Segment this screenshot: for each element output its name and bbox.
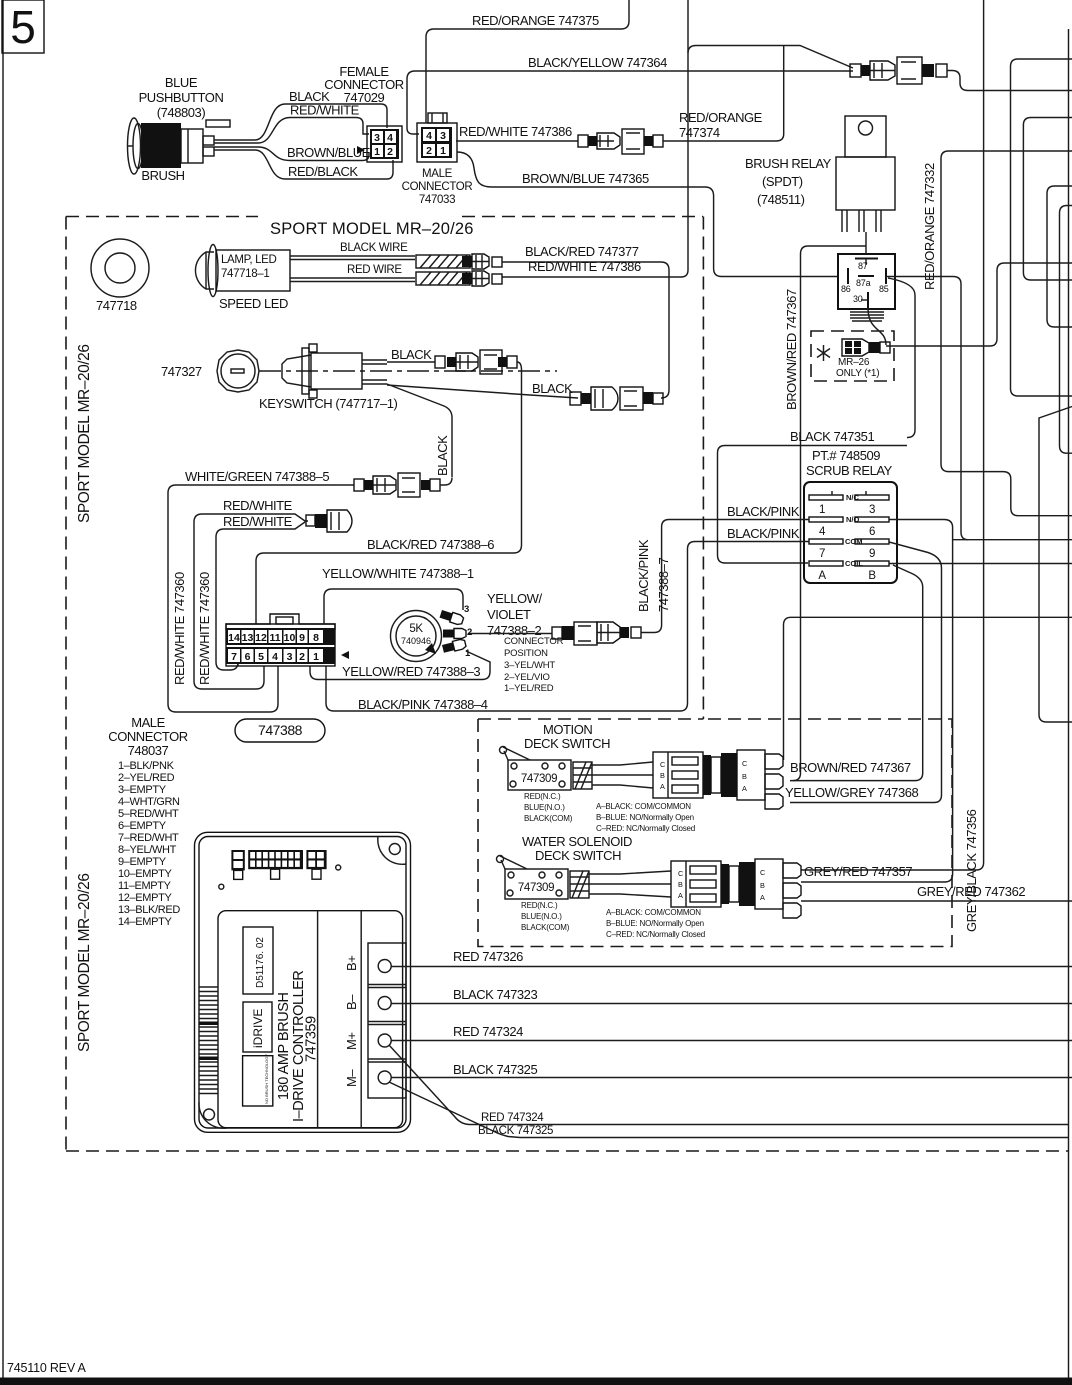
svg-text:9–EMPTY: 9–EMPTY xyxy=(118,856,167,868)
svg-text:BLACK/RED 747377: BLACK/RED 747377 xyxy=(525,244,639,259)
svg-text:180 AMP BRUSH: 180 AMP BRUSH xyxy=(276,992,292,1100)
wire bundle pushbutton to female connector xyxy=(214,104,393,179)
svg-text:BROWN/RED 747367: BROWN/RED 747367 xyxy=(790,760,911,775)
svg-text:RED/WHITE 747386: RED/WHITE 747386 xyxy=(528,259,641,274)
svg-text:2: 2 xyxy=(467,627,472,638)
svg-text:RED 747324: RED 747324 xyxy=(481,1112,544,1124)
wire from pin30 S to MR26 connector and right xyxy=(868,308,886,345)
svg-text:RED(N.C.): RED(N.C.) xyxy=(524,792,561,801)
svg-text:A: A xyxy=(818,570,826,582)
svg-text:C: C xyxy=(678,869,683,878)
svg-text:VIOLET: VIOLET xyxy=(487,607,531,622)
svg-text:RED/ORANGE: RED/ORANGE xyxy=(679,110,763,125)
sport model dashed box top edge with title gap xyxy=(66,216,703,218)
terminal block xyxy=(368,943,406,1098)
svg-text:B: B xyxy=(678,880,683,889)
svg-text:9: 9 xyxy=(299,632,305,644)
label boxes xyxy=(243,927,273,994)
pin6 wire: right, down, junction right to edge xyxy=(889,520,953,883)
svg-text:745110 REV A: 745110 REV A xyxy=(7,1361,87,1375)
arrow marker xyxy=(357,146,365,154)
motion microswitch xyxy=(500,747,572,791)
svg-text:2: 2 xyxy=(426,145,432,157)
spade connector pair on BLACK/YELLOW at (853-947,70) xyxy=(850,57,947,84)
svg-text:747388–7: 747388–7 xyxy=(656,558,671,612)
svg-text:4–WHT/GRN: 4–WHT/GRN xyxy=(118,796,180,808)
svg-text:BLACK/PINK 747388–4: BLACK/PINK 747388–4 xyxy=(358,697,488,712)
svg-text:RED/ORANGE 747375: RED/ORANGE 747375 xyxy=(472,13,599,28)
svg-text:12: 12 xyxy=(255,632,267,644)
svg-text:5: 5 xyxy=(10,1,36,53)
svg-text:3: 3 xyxy=(464,604,469,615)
svg-text:LAMP, LED: LAMP, LED xyxy=(221,254,276,266)
BROWN/RED 747367 from pin87 region down xyxy=(793,246,866,781)
svg-text:747374: 747374 xyxy=(679,125,720,140)
svg-text:BLACK/RED 747388–6: BLACK/RED 747388–6 xyxy=(367,537,494,552)
svg-text:747309: 747309 xyxy=(518,882,554,894)
svg-text:BLACK/YELLOW 747364: BLACK/YELLOW 747364 xyxy=(528,55,667,70)
YELLOW/VIOLET long wire at y617 from motion deck to edge xyxy=(784,617,1072,760)
pot terminals xyxy=(439,604,472,659)
svg-text:2: 2 xyxy=(299,651,305,663)
right pins xyxy=(855,491,889,582)
splice hatched blocks xyxy=(416,255,470,285)
svg-text:11–EMPTY: 11–EMPTY xyxy=(118,880,172,892)
svg-text:1: 1 xyxy=(374,146,380,158)
svg-text:C–RED: NC/Normally Close: C–RED: NC/Normally Closed xyxy=(596,824,695,833)
svg-text:747029: 747029 xyxy=(344,90,385,105)
svg-text:RED(N.C.): RED(N.C.) xyxy=(521,901,558,910)
svg-text:5K: 5K xyxy=(409,623,423,635)
wire top pin to connector xyxy=(387,361,435,363)
svg-text:86: 86 xyxy=(841,284,851,294)
svg-text:2–YEL/RED: 2–YEL/RED xyxy=(118,772,175,784)
bottom dashed of whole region xyxy=(66,1150,1068,1152)
svg-text:(748511): (748511) xyxy=(757,192,805,207)
notes motion xyxy=(596,802,695,833)
svg-text:A: A xyxy=(660,782,665,791)
svg-text:C: C xyxy=(660,760,665,769)
wire on to vertical down xyxy=(256,362,522,624)
svg-text:3: 3 xyxy=(869,504,875,516)
pin85/BLACK 747351 S-curve down xyxy=(888,278,915,438)
svg-text:DECK SWITCH: DECK SWITCH xyxy=(535,848,621,863)
svg-text:B–: B– xyxy=(344,994,359,1010)
svg-text:7: 7 xyxy=(231,651,237,663)
svg-text:A–BLACK: COM/COMMON: A–BLACK: COM/COMMON xyxy=(606,908,701,917)
svg-text:BLACK/PINK: BLACK/PINK xyxy=(636,539,651,612)
svg-text:iDRIVE: iDRIVE xyxy=(251,1009,265,1048)
svg-text:KEYSWITCH (747717–1): KEYSWITCH (747717–1) xyxy=(259,396,398,411)
svg-text:5: 5 xyxy=(258,651,264,663)
corner y59 xyxy=(1011,59,1072,396)
svg-text:RED/WHITE 747360: RED/WHITE 747360 xyxy=(172,572,187,685)
svg-text:A: A xyxy=(760,893,765,902)
svg-text:3–YEL/WHT: 3–YEL/WHT xyxy=(504,660,555,671)
svg-text:747718–1: 747718–1 xyxy=(221,268,269,280)
svg-text:SPORT MODEL MR–20/26: SPORT MODEL MR–20/26 xyxy=(270,220,474,238)
svg-text:BROWN/BLUE 747365: BROWN/BLUE 747365 xyxy=(522,171,649,186)
corner y117.5 xyxy=(1023,118,1072,281)
svg-text:MALE: MALE xyxy=(131,715,165,730)
svg-text:85: 85 xyxy=(879,284,889,294)
svg-text:C: C xyxy=(760,868,765,877)
inner box xyxy=(218,911,403,1128)
keyswitch bottom pin wires xyxy=(387,384,452,477)
svg-text:ONLY (*1): ONLY (*1) xyxy=(836,368,879,379)
svg-text:NO BRUSH TECHNOLOGY: NO BRUSH TECHNOLOGY xyxy=(264,1054,269,1104)
svg-text:BLUE(N.O.): BLUE(N.O.) xyxy=(521,912,562,921)
svg-text:BLACK: BLACK xyxy=(435,435,450,476)
page border right xyxy=(1068,29,1070,1378)
svg-text:BLACK WIRE: BLACK WIRE xyxy=(340,242,408,254)
svg-text:BLACK(COM): BLACK(COM) xyxy=(524,814,573,823)
svg-text:1: 1 xyxy=(819,504,825,516)
svg-text:CONNECTOR: CONNECTOR xyxy=(402,181,473,193)
svg-text:87a: 87a xyxy=(856,278,871,288)
svg-text:748037: 748037 xyxy=(128,743,169,758)
svg-text:POSITION: POSITION xyxy=(504,648,548,659)
svg-text:B: B xyxy=(742,772,747,781)
svg-text:5–RED/WHT: 5–RED/WHT xyxy=(118,808,179,820)
svg-text:B: B xyxy=(760,881,765,890)
svg-text:A: A xyxy=(742,784,747,793)
svg-text:4: 4 xyxy=(426,130,432,142)
svg-text:SPORT MODEL MR–20/26: SPORT MODEL MR–20/26 xyxy=(76,873,93,1052)
svg-text:RED WIRE: RED WIRE xyxy=(347,264,402,276)
screw tabs xyxy=(378,837,406,865)
svg-text:1: 1 xyxy=(440,145,446,157)
svg-text:PUSHBUTTON: PUSHBUTTON xyxy=(139,90,224,105)
corner y186 xyxy=(1047,186,1072,327)
svg-text:740946: 740946 xyxy=(401,636,431,646)
connector on WHITE/GREEN (354-432,485) xyxy=(354,473,440,497)
svg-text:YELLOW/: YELLOW/ xyxy=(487,591,542,606)
svg-text:747359: 747359 xyxy=(304,1016,320,1062)
hatch strip left xyxy=(199,987,218,1094)
pushbutton BRUSH xyxy=(128,118,231,174)
svg-text:N/C: N/C xyxy=(846,493,860,502)
svg-text:BLACK 747323: BLACK 747323 xyxy=(453,987,537,1002)
wire from top at x688 down to RED/WHITE 747386 LED lead (vert) xyxy=(502,0,688,277)
svg-text:1–YEL/RED: 1–YEL/RED xyxy=(504,683,554,694)
svg-text:RED 747324: RED 747324 xyxy=(453,1024,523,1039)
svg-text:BLUE(N.O.): BLUE(N.O.) xyxy=(524,803,565,812)
brush relay schematic 86/87a/85/30 xyxy=(838,254,895,309)
svg-text:8: 8 xyxy=(313,632,319,644)
svg-text:SCRUB RELAY: SCRUB RELAY xyxy=(806,463,893,478)
svg-text:BLACK/PINK: BLACK/PINK xyxy=(727,504,800,519)
connector assembly (keyswitch top) xyxy=(435,350,517,374)
svg-text:1: 1 xyxy=(313,651,319,663)
RED/ORANGE 747332 wire: y151 corner down x941 xyxy=(941,151,1072,516)
svg-text:COM: COM xyxy=(845,537,863,546)
svg-text:2: 2 xyxy=(387,146,393,158)
svg-text:BROWN/RED 747367: BROWN/RED 747367 xyxy=(784,289,799,410)
svg-text:BRUSH RELAY: BRUSH RELAY xyxy=(745,156,832,171)
svg-text:B: B xyxy=(660,771,665,780)
svg-text:SPORT MODEL MR–20/26: SPORT MODEL MR–20/26 xyxy=(76,344,93,523)
long vertical x983.6 GREY/BLACK 747356 xyxy=(801,0,984,870)
svg-text:M+: M+ xyxy=(344,1032,359,1050)
svg-text:BLACK 747325: BLACK 747325 xyxy=(453,1062,537,1077)
svg-text:747388: 747388 xyxy=(258,722,303,738)
svg-text:CONNECTOR: CONNECTOR xyxy=(108,729,188,744)
svg-text:MALE: MALE xyxy=(422,168,453,180)
svg-text:(748803): (748803) xyxy=(157,105,206,120)
crimp terminals after splice xyxy=(462,254,502,286)
svg-text:13–BLK/RED: 13–BLK/RED xyxy=(118,904,180,916)
svg-text:A: A xyxy=(678,891,683,900)
svg-text:10–EMPTY: 10–EMPTY xyxy=(118,868,172,880)
svg-text:30: 30 xyxy=(853,294,863,304)
svg-text:14–EMPTY: 14–EMPTY xyxy=(118,916,172,928)
svg-text:GREY/RED 747362: GREY/RED 747362 xyxy=(917,884,1025,899)
pin85 wire right and down xyxy=(886,277,968,540)
svg-text:8–YEL/WHT: 8–YEL/WHT xyxy=(118,844,177,856)
svg-text:11: 11 xyxy=(269,632,280,644)
stripes under relay xyxy=(850,312,884,321)
connector glyph xyxy=(306,510,352,532)
svg-text:747033: 747033 xyxy=(419,194,455,206)
brush relay pictorial xyxy=(836,116,895,232)
svg-text:CONNECTOR: CONNECTOR xyxy=(504,636,564,647)
leg to pin 87 xyxy=(865,232,867,254)
svg-text:747327: 747327 xyxy=(161,364,202,379)
svg-text:13: 13 xyxy=(242,632,254,644)
svg-text:A–BLACK: COM/COMMON: A–BLACK: COM/COMMON xyxy=(596,802,691,811)
svg-text:PT.# 748509: PT.# 748509 xyxy=(812,448,880,463)
svg-text:RED 747326: RED 747326 xyxy=(453,949,523,964)
svg-text:BLACK(COM): BLACK(COM) xyxy=(521,923,570,932)
svg-text:RED/ORANGE 747332: RED/ORANGE 747332 xyxy=(922,163,937,290)
svg-text:747718: 747718 xyxy=(96,298,137,313)
svg-text:BLACK: BLACK xyxy=(532,381,573,396)
pin B: horizontal to edge + diagonal down xyxy=(889,563,1072,565)
svg-text:YELLOW/WHITE 747388–1: YELLOW/WHITE 747388–1 xyxy=(322,566,474,581)
female connector 747029 xyxy=(367,126,402,162)
svg-text:4: 4 xyxy=(272,651,278,663)
left dashed edge full height xyxy=(65,217,67,1152)
svg-text:MR–26: MR–26 xyxy=(838,357,870,368)
corner y205.5 short xyxy=(1060,206,1072,454)
pot pin2 wire right through connector xyxy=(469,633,552,635)
svg-text:(SPDT): (SPDT) xyxy=(762,174,803,189)
MR-26 ONLY box xyxy=(811,331,894,381)
svg-text:BLACK: BLACK xyxy=(391,347,432,362)
bottom black bar xyxy=(0,1378,1072,1385)
left pins xyxy=(809,491,843,582)
svg-text:4: 4 xyxy=(387,132,393,144)
svg-text:B+: B+ xyxy=(344,956,359,971)
svg-text:RED/WHITE: RED/WHITE xyxy=(223,514,293,529)
svg-text:BLACK 747325: BLACK 747325 xyxy=(478,1125,553,1137)
svg-text:B–BLUE: NO/Normally Open: B–BLUE: NO/Normally Open xyxy=(596,813,694,822)
svg-text:6–EMPTY: 6–EMPTY xyxy=(118,820,167,832)
svg-text:9: 9 xyxy=(869,548,875,560)
deck switch dashed box xyxy=(478,719,952,947)
svg-text:3: 3 xyxy=(287,651,293,663)
pin9 diagonal down xyxy=(889,542,942,795)
svg-text:SPEED LED: SPEED LED xyxy=(219,296,288,311)
svg-text:RED/WHITE 747360: RED/WHITE 747360 xyxy=(197,572,212,685)
svg-text:747309: 747309 xyxy=(521,773,557,785)
wires to connector with hatch xyxy=(573,762,653,789)
grommet 747718 xyxy=(91,239,149,297)
CONNECTOR POSITION note xyxy=(504,636,564,694)
svg-text:DECK SWITCH: DECK SWITCH xyxy=(524,736,610,751)
svg-text:87: 87 xyxy=(858,261,868,271)
svg-text:GREY/BLACK 747356: GREY/BLACK 747356 xyxy=(964,809,979,932)
svg-text:1–BLK/PNK: 1–BLK/PNK xyxy=(118,760,175,772)
svg-text:12–EMPTY: 12–EMPTY xyxy=(118,892,172,904)
dip switches xyxy=(231,850,326,879)
svg-text:B–BLUE: NO/Normally Open: B–BLUE: NO/Normally Open xyxy=(606,919,704,928)
page border left xyxy=(2,0,4,1378)
svg-text:3: 3 xyxy=(440,130,446,142)
svg-text:2–YEL/VIO: 2–YEL/VIO xyxy=(504,672,550,683)
right dashed edge upper box xyxy=(702,217,704,720)
svg-text:3: 3 xyxy=(374,132,380,144)
speed LED lamp xyxy=(195,245,415,297)
svg-text:3–EMPTY: 3–EMPTY xyxy=(118,784,167,796)
male connector 747033 xyxy=(417,113,457,162)
svg-text:N/O: N/O xyxy=(846,515,860,524)
svg-text:WHITE/GREEN 747388–5: WHITE/GREEN 747388–5 xyxy=(185,469,329,484)
svg-text:10: 10 xyxy=(284,632,296,644)
svg-text:RED/WHITE: RED/WHITE xyxy=(223,498,293,513)
svg-text:BRUSH: BRUSH xyxy=(141,168,184,183)
svg-text:GREY/RED 747357: GREY/RED 747357 xyxy=(804,864,912,879)
svg-text:B: B xyxy=(868,570,876,582)
svg-text:RED/BLACK: RED/BLACK xyxy=(288,164,358,179)
svg-text:7: 7 xyxy=(819,548,825,560)
svg-text:WATER SOLENOID: WATER SOLENOID xyxy=(522,834,632,849)
keyswitch body xyxy=(282,344,387,398)
motion connector block xyxy=(653,750,783,809)
svg-text:COIL: COIL xyxy=(845,559,863,568)
svg-text:YELLOW/RED 747388–3: YELLOW/RED 747388–3 xyxy=(342,664,480,679)
svg-text:M–: M– xyxy=(344,1069,359,1087)
svg-text:BLUE: BLUE xyxy=(165,75,198,90)
svg-text:BLACK/PINK: BLACK/PINK xyxy=(727,526,800,541)
svg-text:MOTION: MOTION xyxy=(543,722,592,737)
svg-text:BLACK 747351: BLACK 747351 xyxy=(790,429,874,444)
svg-text:RED/WHITE 747386: RED/WHITE 747386 xyxy=(459,124,572,139)
sheet number box 5 xyxy=(2,0,44,53)
svg-text:6: 6 xyxy=(245,651,251,663)
svg-text:YELLOW/GREY 747368: YELLOW/GREY 747368 xyxy=(785,785,919,800)
svg-text:7–RED/WHT: 7–RED/WHT xyxy=(118,832,179,844)
svg-text:D51176. 02: D51176. 02 xyxy=(255,937,266,988)
svg-text:C–RED: NC/Normally Close: C–RED: NC/Normally Closed xyxy=(606,930,705,939)
svg-text:4: 4 xyxy=(819,526,826,538)
oval 747388 xyxy=(235,719,325,742)
svg-text:C: C xyxy=(742,759,747,768)
svg-text:6: 6 xyxy=(869,526,875,538)
junction corner into y=45.5 run to spade xyxy=(688,46,853,69)
svg-text:14: 14 xyxy=(228,632,240,644)
connector pair on BLACK at (578-660,398) xyxy=(570,387,663,410)
inline connector on 747386 xyxy=(578,129,663,154)
